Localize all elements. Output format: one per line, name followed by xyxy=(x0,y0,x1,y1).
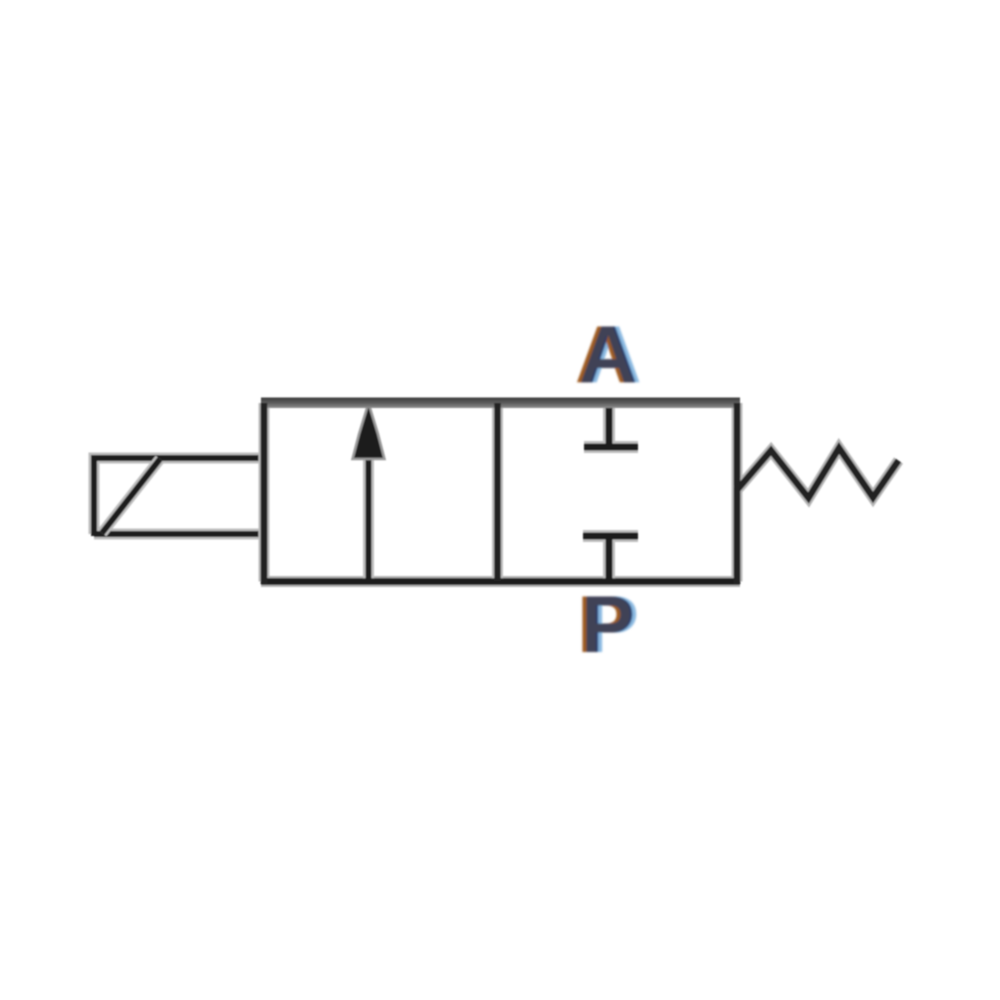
solenoid actuator box xyxy=(94,458,264,536)
blocked port A symbol (top T) xyxy=(584,403,638,447)
solenoid diagonal stroke xyxy=(102,459,160,533)
return spring xyxy=(737,448,899,498)
port label A xyxy=(575,310,642,400)
port label P xyxy=(577,580,639,670)
flow path arrow stem xyxy=(363,450,374,580)
valve position divider xyxy=(492,403,503,581)
svg-text:P: P xyxy=(579,580,633,670)
blocked port P symbol (bottom T) xyxy=(583,536,638,581)
flow path arrowhead xyxy=(353,403,385,459)
valve body outer frame xyxy=(261,398,740,585)
svg-text:A: A xyxy=(577,310,636,400)
valve body frame re-stroke (keeps borders solid over halos) xyxy=(261,398,740,585)
